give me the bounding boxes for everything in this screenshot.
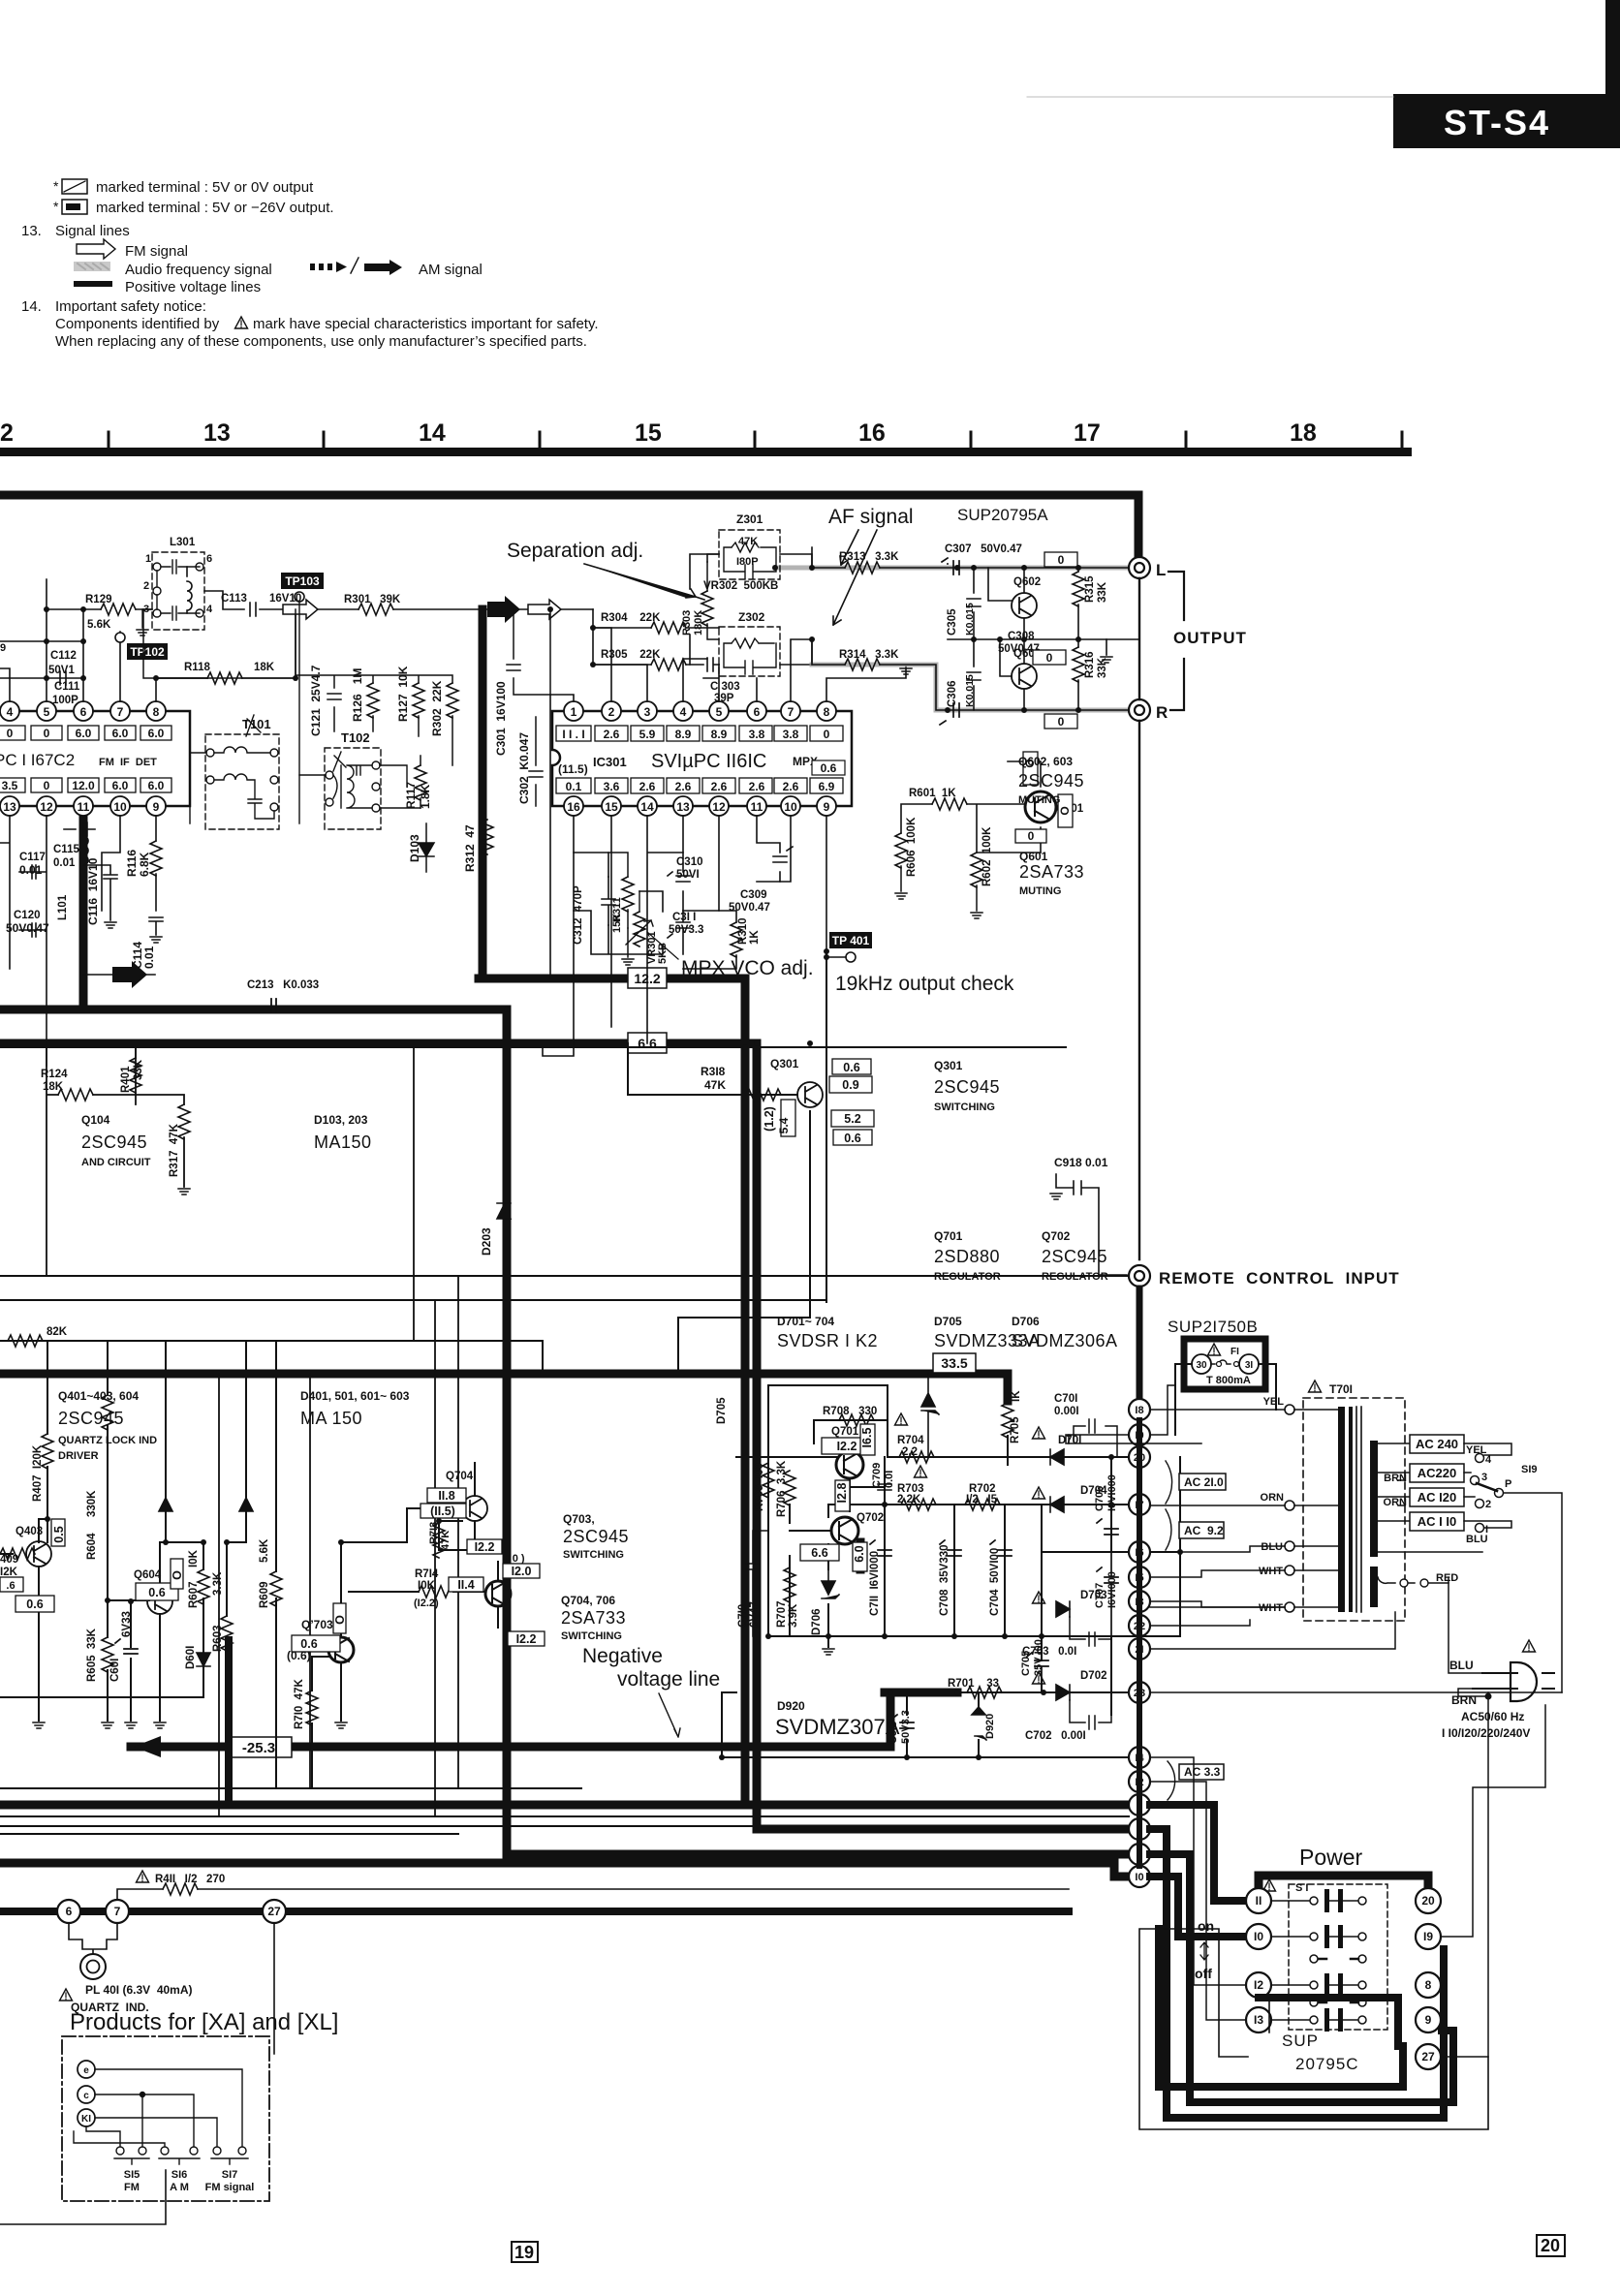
transistor Q301 [797,1082,823,1107]
labels IF top [0,537,401,706]
svg-text:3.3K: 3.3K [212,1571,224,1596]
svg-text:2: 2 [143,580,149,592]
svg-text:3: 3 [644,705,651,719]
warning triangles psu [895,1413,1045,1684]
svg-text:I2: I2 [1254,1978,1263,1992]
svg-text:5.2: 5.2 [844,1112,860,1126]
svg-text:0.6: 0.6 [844,1132,860,1145]
wire: C312/R311/VR301 cluster [574,853,663,954]
wire: yel tap row [1378,1443,1482,1552]
capacitor C601 [115,1639,138,1654]
svg-text:I9: I9 [1423,1930,1433,1943]
svg-text:39P: 39P [714,693,734,704]
svg-text:I2.0: I2.0 [512,1565,532,1578]
svg-text:YEL: YEL [1263,1396,1285,1408]
voltage boxes psu [800,1424,875,1571]
output bracket [1168,572,1184,710]
svg-text:P: P [1505,1478,1511,1490]
wire: pin4 VR302 [683,659,707,701]
svg-text:0.5: 0.5 [52,1526,66,1542]
labels Q602 group (right) [1018,755,1084,897]
resistor R609 [270,1571,282,1606]
resistor R311 [622,877,634,912]
svg-text:6.0: 6.0 [853,1545,866,1562]
leader: negative voltage line [659,1693,680,1737]
svg-text:15: 15 [605,800,618,814]
svg-text:R706 3.3K: R706 3.3K [776,1460,788,1517]
svg-text:5.9: 5.9 [639,728,656,741]
capacitor C116 [83,865,117,920]
svg-text:C709: C709 [871,1463,883,1488]
wire: R305 row [593,664,703,666]
voltage boxes output [1015,552,1077,843]
svg-text:33K: 33K [133,1059,144,1080]
svg-text:BLU: BLU [1466,1534,1488,1545]
wire: row to c20 [1008,1456,1129,1458]
ground output mid [1101,657,1112,663]
wires: taps to S19 [1464,1443,1562,1692]
svg-text:R304 22K: R304 22K [601,612,661,624]
svg-text:50VI: 50VI [676,869,700,881]
arcs at terminal rows [1166,1461,1175,1800]
wire: pin13 down C310 [682,816,684,911]
resistor R126 [367,683,379,718]
grounds row [33,1722,347,1728]
svg-text:C702 0.00I: C702 0.00I [1025,1730,1086,1742]
ground C114 [150,937,162,943]
diode D602 up arrow [159,1498,172,1511]
svg-text:SVDMZ306A: SVDMZ306A [1012,1331,1118,1350]
svg-text:D706: D706 [811,1609,823,1636]
wire: C709 [850,1486,885,1488]
resistor R603 [221,1616,233,1651]
wire: Q301 base [628,1043,797,1095]
svg-text:AC50/60 Hz: AC50/60 Hz [1461,1710,1524,1723]
svg-text:10: 10 [784,800,797,814]
wire: Q702 emitter thick handled; base row [790,1530,829,1532]
svg-text:R118: R118 [184,662,210,673]
tap contacts + S19 [1471,1454,1504,1533]
transistor Q604 [147,1589,172,1614]
svg-text:2SC945: 2SC945 [81,1132,147,1152]
svg-text:50V3.3: 50V3.3 [669,924,703,936]
svg-text:C305: C305 [947,608,958,636]
svg-text:(I2.2): (I2.2) [414,1598,439,1609]
test point TP401 [824,932,872,962]
svg-text:2.6: 2.6 [749,780,765,793]
wire: R714/Q706 base [349,1591,485,1593]
wire: R607/D601 column [0,1542,203,1697]
svg-text:Q’703: Q’703 [301,1618,333,1631]
svg-text:100P: 100P [52,695,78,706]
svg-text:T 800mA: T 800mA [1206,1375,1251,1386]
svg-text:50V0.47: 50V0.47 [729,902,770,914]
right edge black strip [1605,0,1620,97]
wire: C306 column [967,639,981,710]
resistor R706 vertical [784,1471,795,1505]
wire: 19k line vertical through [826,816,827,951]
svg-text:2.6: 2.6 [675,780,692,793]
svg-text:33K: 33K [1097,581,1108,603]
svg-text:SI9: SI9 [1521,1464,1538,1475]
wire: C706/C707 right column [1111,1457,1180,1715]
svg-text:AND CIRCUIT: AND CIRCUIT [81,1157,151,1168]
svg-text:I2.8: I2.8 [835,1483,849,1504]
svg-text:0.01: 0.01 [53,857,76,869]
labels below IC301 [573,856,770,964]
svg-text:9: 9 [0,642,6,654]
electrolytic C707 [1097,1552,1118,1636]
resistor R407 [42,1434,53,1469]
svg-text:PL 40I (6.3V 40mA): PL 40I (6.3V 40mA) [85,1983,193,1997]
svg-text:FM signal: FM signal [125,243,188,260]
svg-text:I0: I0 [1135,1872,1143,1883]
svg-text:0.00I: 0.00I [1054,1406,1079,1417]
svg-text:20: 20 [1421,1894,1435,1908]
wire: D920 area [722,1692,979,1757]
wire: 12.2 bus horizontal [479,978,745,1805]
wire: R603 zig to thick [227,1639,229,1641]
svg-text:6: 6 [66,1905,73,1918]
IC IC101 body [0,711,190,806]
svg-text:WHT: WHT [1259,1602,1283,1614]
svg-text:Z302: Z302 [738,610,765,624]
resistor R313 [845,562,880,574]
svg-text:50V3.3: 50V3.3 [900,1710,912,1744]
diode D702 [1056,1685,1070,1700]
svg-text:C3I I: C3I I [672,912,696,923]
resistor R315 [1073,572,1084,606]
svg-text:Q704, 706: Q704, 706 [561,1594,615,1607]
legend top-left [21,178,599,350]
wire: pin15 down [610,816,612,1027]
svg-text:Z301: Z301 [736,512,763,526]
svg-text:SWITCHING: SWITCHING [563,1549,624,1561]
svg-text:R705: R705 [1010,1416,1021,1443]
wire: R118 line [156,677,296,679]
wire: columns down [768,1410,1042,1692]
transformer T101 dashed [190,715,279,829]
svg-text:20795C: 20795C [1295,2055,1359,2073]
svg-text:R302 22K: R302 22K [430,680,444,736]
svg-text:Q301: Q301 [770,1057,799,1070]
svg-text:O: O [1058,806,1072,815]
svg-text:T70I: T70I [1329,1382,1353,1396]
capacitor C213 on bus [271,999,276,1012]
capacitor C308 [940,703,959,725]
resistor R411 [163,1883,198,1895]
resistor R127 [413,683,424,718]
terminal R [1129,699,1150,721]
wire: Q701 base/emitter [828,1478,850,1517]
svg-text:0: 0 [1046,651,1053,665]
svg-text:R116: R116 [125,850,139,877]
svg-text:5.6K: 5.6K [87,619,111,631]
svg-text:II.4: II.4 [457,1578,474,1592]
wire: box bottom out [0,2170,166,2224]
transistor Q601 bold [1025,791,1056,822]
svg-text:Q704: Q704 [446,1471,474,1482]
diode D704 [1050,1497,1064,1512]
svg-text:13: 13 [676,800,690,814]
svg-text:2.6: 2.6 [604,728,620,741]
svg-text:R601 1K: R601 1K [909,788,956,799]
svg-text:Audio frequency signal: Audio frequency signal [125,262,272,278]
svg-text:I0K: I0K [188,1549,200,1567]
svg-text:1: 1 [571,705,577,719]
resistor R310 zigzag [731,922,742,957]
zener Z302 dashed box [719,627,780,676]
wire: pin1 to C302 [550,695,574,978]
svg-text:2SD880: 2SD880 [934,1247,1000,1266]
capacitor C702 loop [1070,1700,1111,1729]
svg-text:2: 2 [608,705,615,719]
svg-text:0.01: 0.01 [19,863,43,877]
transformer secondary bar [1370,1441,1378,1557]
ground R606 [895,893,907,899]
wire: R704 row [888,1456,1008,1458]
svg-text:AF signal: AF signal [828,506,914,528]
svg-text:3.6: 3.6 [604,780,620,793]
svg-text:C112: C112 [50,650,77,662]
svg-text:6: 6 [206,553,212,565]
resistor R607 [198,1569,209,1604]
svg-text:C213 K0.033: C213 K0.033 [247,979,319,991]
svg-text:15: 15 [635,419,662,447]
svg-text:2SC945: 2SC945 [1042,1247,1107,1266]
svg-text:L101: L101 [57,894,69,920]
svg-text:8.9: 8.9 [711,728,728,741]
svg-text:C302 K0.047: C302 K0.047 [517,732,531,804]
label: Q703 group [561,1512,629,1642]
wires into transformer left [1294,1410,1338,1607]
svg-text:16: 16 [858,419,886,447]
svg-text:ORN: ORN [1261,1492,1285,1504]
diode D603 up arrow [239,1498,253,1511]
capacitor C301 [507,609,550,695]
svg-text:SUP2I750B: SUP2I750B [1168,1318,1258,1336]
svg-text:MA 150: MA 150 [300,1409,362,1428]
svg-text:R707: R707 [776,1601,788,1629]
svg-text:0.6: 0.6 [148,1586,165,1599]
svg-text:Separation adj.: Separation adj. [507,540,643,562]
wires inside products box [74,2069,242,2147]
wire: vertical Q301 collector down [678,1111,810,1374]
svg-text:20: 20 [1541,2236,1560,2255]
svg-text:MPX VCO adj.: MPX VCO adj. [681,957,814,979]
svg-text:SI7: SI7 [222,2169,238,2181]
wire: R411 row [117,1889,1069,1901]
svg-text:18K: 18K [43,1081,64,1093]
svg-text:I6VI000: I6VI000 [1106,1571,1118,1608]
svg-text:11: 11 [751,800,763,814]
wire: pin5/C112 node [0,579,47,701]
wire: L101 thick lead [79,817,88,1009]
svg-text:FM: FM [124,2182,140,2193]
svg-text:3: 3 [1481,1472,1487,1483]
transistor Q603 [1012,664,1037,689]
svg-text:C 303: C 303 [710,681,740,693]
svg-text:16V10: 16V10 [269,593,301,605]
transistor Q704 [462,1496,487,1521]
wires: rows 22/21/13/15 [1150,1601,1488,1692]
wire: bottom row to c14 [722,1756,1129,1758]
wires: BRN/ORN from transformer right primaries [1398,1473,1405,1505]
resistor 82K at left [8,1335,43,1347]
capacitor C309 [773,847,793,862]
svg-text:0.6: 0.6 [300,1637,317,1651]
svg-text:(1.2): (1.2) [763,1106,776,1132]
capacitor C703 loop [1070,1617,1111,1646]
wire: Q704 [474,1463,476,1539]
AC value boxes [1179,1474,1226,1780]
svg-text:R602 100K: R602 100K [981,826,993,886]
svg-text:O: O [171,1570,184,1580]
zener D706 [822,1569,839,1598]
svg-text:D103, 203: D103, 203 [314,1113,368,1127]
svg-text:R316: R316 [1084,652,1096,679]
svg-text:R314 3.3K: R314 3.3K [839,649,899,661]
wire: AF line L [812,547,1139,568]
svg-text:I2.2: I2.2 [837,1440,857,1453]
svg-text:D401, 501, 601~ 603: D401, 501, 601~ 603 [300,1389,410,1403]
svg-text:R704: R704 [897,1435,924,1446]
svg-text:Q403: Q403 [16,1526,43,1537]
svg-text:DRIVER: DRIVER [58,1450,99,1462]
svg-text:50V0.47: 50V0.47 [6,921,49,935]
labels IF bottom [6,844,319,991]
ground VR301 [622,959,634,965]
wire: thin from switch 19 to plug [1441,1705,1545,1937]
wire: base zigzag from left [0,1553,1,1555]
resistor R301 [358,604,393,615]
wire: Q603 [1000,639,1024,710]
svg-text:Products for [XA] and [XL]: Products for [XA] and [XL] [70,2009,338,2035]
resistor R705 vertical [1002,1403,1013,1438]
capacitor C913 [892,1715,914,1728]
svg-text:5: 5 [716,705,723,719]
svg-text:C7I0: C7I0 [737,1604,749,1628]
wire: box verticals [47,1047,414,1341]
FM signal hollow arrow 2 [528,600,561,619]
svg-text:14: 14 [419,419,446,447]
wire: bottom common row [768,1635,1180,1637]
wires: rows from terminals 18/19 [1066,1385,1201,1443]
svg-text:7: 7 [114,1905,121,1918]
svg-text:AC I I0: AC I I0 [1417,1514,1456,1529]
svg-text:Q602, 603: Q602, 603 [1018,755,1073,768]
electrolytic C711 [870,1540,891,1556]
svg-text:R310: R310 [737,918,749,946]
IC101 pins top [0,701,166,816]
wire: Q701 collector net [736,1420,888,1457]
wire: pin8 gnd [826,667,906,701]
wire: D603 column [227,1341,246,1542]
lamp PL401 [80,1954,106,1979]
thick wire: R603 lead [225,1640,233,1804]
svg-text:off: off [1195,1966,1212,1981]
svg-text:6.0: 6.0 [76,727,92,740]
svg-text:C918 0.01: C918 0.01 [1054,1156,1108,1169]
terminal circles column [1129,1399,1150,1887]
wire: pin12 down [683,816,719,911]
wire: horizontal mid line 2 [0,1299,826,1301]
svg-text:TP103: TP103 [285,574,320,588]
svg-text:9: 9 [153,800,160,814]
svg-text:Signal lines: Signal lines [55,223,130,239]
svg-text:D920: D920 [777,1699,805,1713]
svg-text:c: c [83,2091,89,2101]
svg-text:II: II [1256,1894,1262,1908]
svg-text:C121 25V4.7: C121 25V4.7 [309,665,323,736]
ground R317 [178,1189,190,1195]
svg-text:mark have special characterist: mark have special characteristics import… [253,316,599,332]
svg-text:C306: C306 [947,681,958,708]
ground R602 [971,913,982,918]
wire: R701 row to c23 [957,1691,1129,1693]
resistor R304 [651,622,686,634]
S1 dashed box [1289,1884,1387,2030]
wires: C121/R126/R127 column [143,609,452,765]
wire: R609 column [275,1341,277,1788]
svg-text:R609: R609 [259,1582,270,1609]
wire: mid output row [948,638,1139,640]
svg-text:10: 10 [113,800,127,814]
svg-text:35V I00: 35V I00 [1033,1639,1044,1676]
svg-text:D701~ 704: D701~ 704 [777,1315,834,1328]
wire: R603 column [226,1542,228,1616]
svg-text:2.6: 2.6 [783,780,799,793]
resistor R318 [746,1089,781,1101]
svg-text:I3: I3 [1254,2013,1263,2027]
svg-text:BRN: BRN [1451,1693,1477,1707]
zener Z301 dashed box [719,530,780,579]
resistor R604 [102,1395,113,1430]
capacitor C307 [942,558,959,574]
svg-text:0: 0 [44,727,50,740]
svg-text:K0.015: K0.015 [964,603,976,636]
svg-text:0.9: 0.9 [842,1078,858,1092]
thick wires: terminals to switch [1150,1805,1453,2118]
svg-text:11: 11 [78,800,90,814]
resistor R708 [839,1414,874,1426]
svg-text:27: 27 [267,1905,281,1918]
svg-text:C308: C308 [1008,631,1035,642]
svg-text:13.: 13. [21,223,42,239]
svg-text:R606 100K: R606 100K [906,817,918,877]
ground C116 [105,922,116,928]
wire: R407 column [47,1341,48,1542]
capacitor C310 [668,872,690,882]
svg-text:MUTING: MUTING [1019,885,1061,897]
svg-text:FM IF DET: FM IF DET [99,757,157,768]
wire: L301 to C113 [204,591,283,609]
svg-text:I I0/I20/220/240V: I I0/I20/220/240V [1442,1726,1530,1740]
wire: verticals to lower rows [219,1276,458,1816]
svg-text:C301 16V100: C301 16V100 [494,681,508,756]
svg-text:2: 2 [0,419,14,447]
svg-text:marked terminal : 5V or 0V out: marked terminal : 5V or 0V output [96,179,314,196]
test point TP103 [281,573,324,823]
wire: R129 wire [47,608,152,610]
svg-text:2: 2 [1485,1499,1491,1510]
svg-text:2.2: 2.2 [902,1446,918,1458]
svg-text:REGULATOR: REGULATOR [934,1271,1001,1283]
svg-text:C70I: C70I [1054,1393,1077,1405]
resistor R713 zig [433,1523,445,1558]
svg-text:3I: 3I [1245,1360,1254,1371]
wire: AF line R (R314) [812,639,1129,710]
